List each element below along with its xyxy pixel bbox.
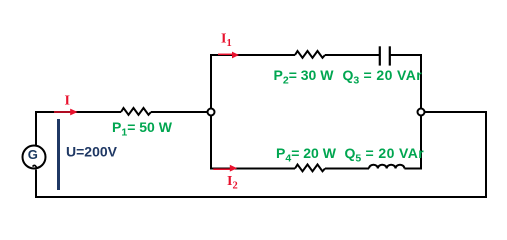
inductor L5 (Q5) — [369, 165, 404, 169]
node B (right junction) — [418, 109, 425, 116]
voltage marker line U — [57, 119, 60, 190]
svg-text:G: G — [28, 147, 38, 162]
wire: source top lead — [35, 112, 37, 145]
svg-text:I: I — [65, 94, 70, 109]
resistor P1 — [121, 108, 151, 115]
wire: source bottom lead — [35, 170, 37, 199]
wire: right branch vertical (node B) — [420, 55, 422, 169]
current arrow I1 — [218, 52, 239, 59]
wire: bottom branch left segment — [210, 168, 295, 170]
capacitor C3 plate right — [389, 46, 391, 65]
wire: inductor L5 to node B vertical — [404, 168, 422, 170]
node A (left junction) — [208, 109, 215, 116]
wire: capacitor C3 to right branch corner — [390, 54, 422, 56]
current arrow I2 — [213, 165, 237, 172]
svg-text:U=200V: U=200V — [66, 144, 118, 160]
current arrow I — [54, 109, 78, 116]
wire: source to resistor P1 — [35, 111, 121, 113]
wire: bottom return rail — [35, 196, 487, 198]
resistor R2 (P2) — [295, 51, 325, 58]
resistor R4 (P4) — [295, 165, 325, 172]
wire: top branch left segment — [210, 54, 295, 56]
wire: resistor R4 to inductor L5 — [325, 168, 369, 170]
generator G symbol — [23, 146, 46, 169]
wire: resistor R2 to capacitor C3 — [325, 54, 380, 56]
wire: left branch vertical (node A) — [210, 55, 212, 169]
wire: node B to right corner — [421, 111, 487, 113]
wire: right outer vertical — [485, 112, 487, 198]
wire: resistor P1 to node A — [151, 111, 211, 113]
capacitor C3 plate left — [379, 46, 381, 65]
